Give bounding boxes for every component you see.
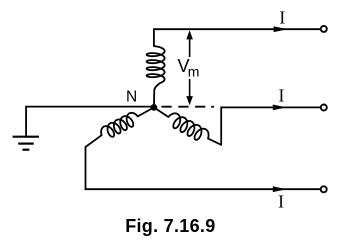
svg-text:I: I [278, 192, 284, 212]
svg-text:m: m [188, 64, 200, 80]
svg-text:N: N [126, 88, 137, 105]
svg-text:Fig. 7.16.9: Fig. 7.16.9 [125, 216, 215, 236]
svg-text:I: I [278, 85, 284, 105]
svg-text:I: I [279, 7, 285, 27]
